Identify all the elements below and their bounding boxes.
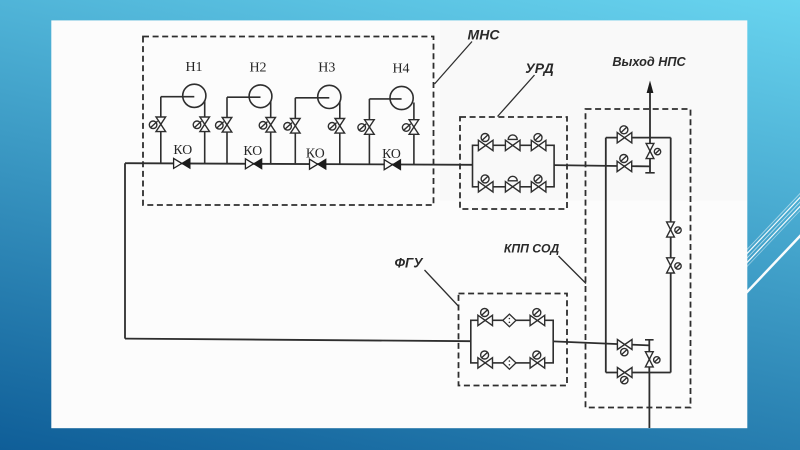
svg-text:КО: КО (243, 143, 262, 158)
FGU filter racetrack (471, 320, 553, 363)
wire: left drop of recirculation loop (124, 163, 126, 338)
valve on H4 right pipe (402, 120, 418, 135)
valve on H2 right pipe (259, 118, 275, 133)
wire: URD outlet to KPP (554, 165, 650, 166)
svg-text:Н3: Н3 (318, 61, 335, 76)
decorative diagonal streak 2 (744, 197, 800, 257)
svg-text:КО: КО (173, 142, 192, 157)
capped stub above FGU line junction (645, 339, 654, 341)
leader line MNS (435, 42, 473, 85)
wire: FGU outlet to KPP (553, 341, 649, 345)
valve on FGU outlet line (617, 340, 632, 356)
pump H1 piping (161, 96, 195, 98)
valve on H2 left pipe (216, 118, 232, 133)
valve on stub pipe (645, 352, 660, 367)
pump H2 piping (227, 96, 261, 98)
dashed box MNS (143, 37, 434, 206)
decorative diagonal streak 3 (744, 201, 800, 261)
svg-text:ФГУ: ФГУ (395, 255, 424, 270)
svg-text:КО: КО (382, 146, 401, 161)
valve on H3 right pipe (328, 119, 344, 134)
check valve KO1 (174, 158, 190, 168)
check valve KO2 (245, 159, 261, 169)
wire: bottom run to FGU (125, 339, 471, 342)
URD bottom valve 3 (531, 175, 546, 192)
KPP bottom header pipe (606, 372, 671, 374)
valve on H3 left pipe (284, 119, 300, 134)
dashed box KPP SOD (586, 109, 691, 408)
URD top valve 2 (505, 135, 520, 151)
URD top valve 1 (478, 134, 493, 151)
wire: main suction manifold (125, 163, 473, 165)
valve on H1 left pipe (149, 117, 165, 132)
leader line KPP SOD (559, 256, 587, 284)
stub pipe down through valve (648, 340, 650, 373)
svg-text:КПП СОД: КПП СОД (504, 242, 560, 256)
decorative diagonal streak 1 (744, 193, 800, 253)
outlet riser to Vykhod NPS (649, 86, 651, 173)
svg-text:УРД: УРД (525, 60, 553, 76)
URD manifold racetrack (473, 145, 555, 187)
svg-text:Выход НПС: Выход НПС (612, 55, 686, 69)
URD top valve 3 (531, 134, 546, 151)
valve on KPP right riser lower (667, 258, 682, 273)
svg-text:Н1: Н1 (185, 60, 202, 75)
valve on KPP right riser upper (667, 222, 682, 237)
FGU top valve 2 (530, 309, 545, 326)
FGU bottom filter diamond (503, 357, 516, 370)
check valve KO3 (310, 159, 326, 169)
KPP left riser (605, 138, 607, 373)
FGU bottom valve 2 (530, 351, 545, 368)
decorative diagonal streak 4 (744, 206, 800, 266)
pump H1 circle (183, 84, 206, 107)
pump H4 piping (369, 98, 401, 100)
check valve KO4 (384, 160, 400, 170)
leader line FGU (425, 270, 459, 306)
KPP top header pipe (606, 137, 671, 139)
drain line leaving bottom of KPP (648, 373, 650, 429)
decorative diagonal streak thick (744, 235, 800, 295)
valve on H1 right pipe (193, 117, 209, 132)
dashed box FGU (459, 294, 568, 386)
end cap under outlet riser (645, 172, 654, 174)
svg-text:Н2: Н2 (249, 60, 266, 75)
valve on H4 left pipe (358, 120, 374, 135)
valve on outlet riser (646, 143, 661, 158)
pump H4 circle (390, 86, 413, 109)
FGU bottom valve 1 (478, 351, 493, 368)
svg-text:МНС: МНС (468, 27, 501, 43)
URD bottom valve 1 (478, 175, 493, 192)
FGU top filter diamond (503, 314, 516, 327)
URD bottom valve 2 (505, 176, 520, 192)
valve on KPP top header (617, 126, 632, 143)
arrow head Vykhod NPS (647, 81, 654, 94)
decorative diagonal streak 5 (744, 210, 800, 270)
pump H2 circle (249, 85, 272, 108)
pump H3 piping (295, 97, 329, 99)
faint scan shading centre (440, 20, 747, 200)
dashed box URD (460, 117, 567, 209)
KPP right riser (670, 138, 672, 373)
svg-text:Н4: Н4 (392, 61, 409, 76)
leader line URD (498, 75, 535, 117)
FGU top valve 1 (478, 309, 493, 326)
svg-text:КО: КО (306, 145, 325, 160)
valve on URD outlet line (617, 155, 632, 172)
pump H3 circle (318, 85, 341, 108)
valve on KPP bottom header (617, 368, 632, 384)
white paper panel (51, 20, 747, 428)
